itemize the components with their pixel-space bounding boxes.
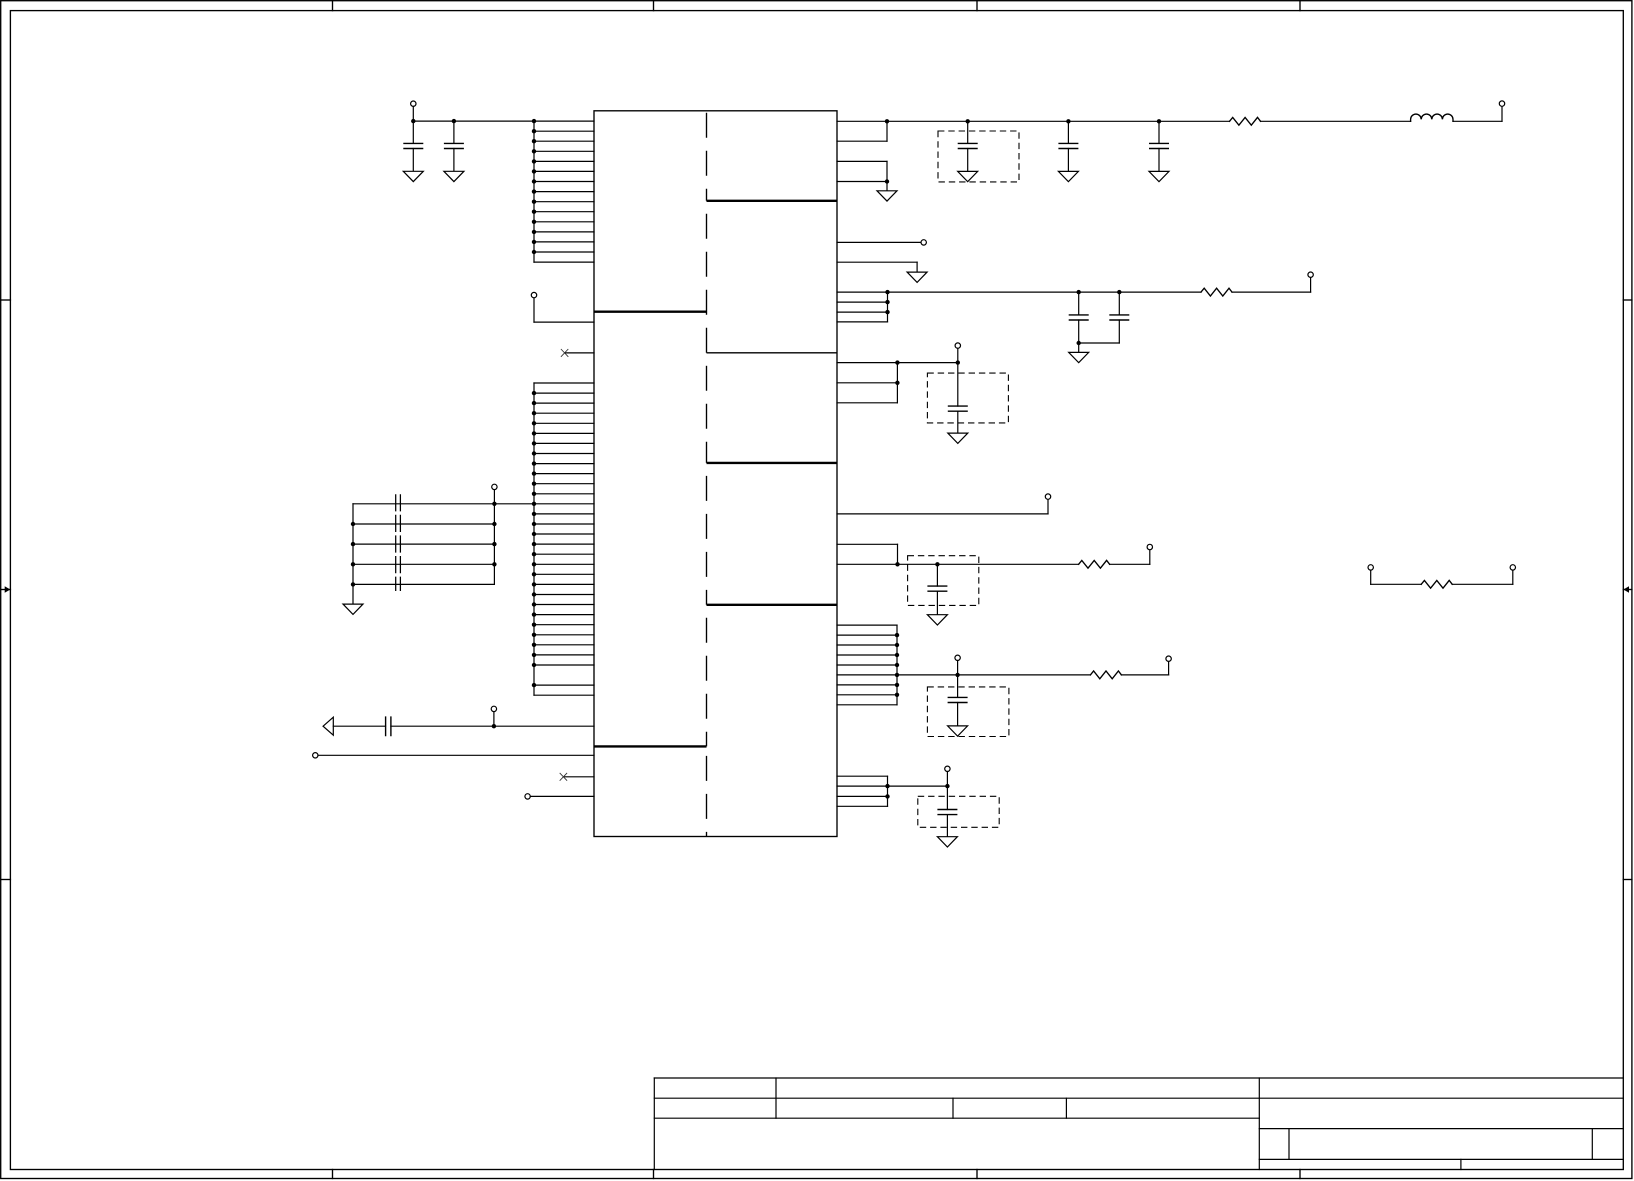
title block right row line 4 [1259, 1158, 1623, 1160]
border zone tick right [1623, 299, 1632, 301]
wire pin stub [837, 402, 897, 404]
junction [895, 562, 899, 566]
wire pin stub [534, 261, 594, 263]
wire [318, 754, 594, 756]
bus vertical [887, 776, 889, 806]
wire pin stub [837, 775, 888, 777]
wire pin stub [534, 583, 594, 585]
junction [895, 381, 899, 385]
wire pin stub [534, 624, 594, 626]
wire pin stub [534, 533, 594, 535]
junction [532, 542, 536, 546]
junction [532, 683, 536, 687]
capacitor C8 [1118, 292, 1120, 315]
wire power net 5 [837, 563, 1079, 565]
wire pin stub [837, 654, 897, 656]
wire [493, 490, 495, 504]
wire pin stub [534, 594, 594, 596]
terminal P11 [1045, 494, 1050, 499]
wire pin stub [837, 624, 897, 626]
title block divider col 2 [952, 1098, 954, 1118]
title block right row line 3 [1259, 1128, 1623, 1130]
wire pin stub [534, 231, 594, 233]
terminal P7 [1499, 101, 1504, 106]
junction [532, 139, 536, 143]
wire pin stub [534, 130, 594, 132]
junction [532, 129, 536, 133]
junction [532, 502, 536, 506]
terminal P15 [945, 766, 950, 771]
title block cell divider b [1591, 1129, 1593, 1160]
junction [895, 673, 899, 677]
capacitor C6 [1158, 121, 1160, 143]
wire pin stub [534, 392, 594, 394]
junction [532, 411, 536, 415]
IC U1 body [594, 111, 837, 837]
wire pin stub [534, 211, 594, 213]
junction [895, 693, 899, 697]
resistor R4 [1090, 671, 1121, 679]
wire pin stub [837, 634, 897, 636]
terminal P17 [1510, 565, 1515, 570]
resistor R2 [1201, 288, 1232, 296]
wire pin stub [534, 483, 594, 485]
terminal P4 [491, 706, 496, 711]
border zone tick top [653, 1, 655, 11]
wire [1232, 291, 1311, 293]
junction [532, 421, 536, 425]
wire pin stub [534, 543, 594, 545]
wire pin stub [837, 160, 887, 162]
IC U1 dashed section divider [706, 111, 708, 201]
wire power net 2 [837, 291, 1201, 293]
inductor L1 [1411, 114, 1453, 121]
junction [532, 562, 536, 566]
junction [532, 482, 536, 486]
wire [946, 772, 948, 787]
optional-part dashed box [927, 373, 1008, 423]
junction [885, 119, 889, 123]
capacitor C11 [957, 675, 959, 698]
junction [1117, 290, 1121, 294]
title block bottom cell divider [1460, 1159, 1462, 1169]
wire pin stub [837, 684, 897, 686]
junction [532, 230, 536, 234]
wire pin stub [837, 301, 888, 303]
junction [492, 542, 496, 546]
junction [351, 542, 355, 546]
title block top line [654, 1077, 1623, 1079]
wire pin stub [534, 181, 594, 183]
junction [532, 149, 536, 153]
wire [1452, 583, 1513, 585]
wire [886, 161, 888, 181]
no-connect X [561, 349, 568, 357]
junction [532, 240, 536, 244]
ground [1058, 171, 1078, 181]
terminal P14 [1166, 656, 1171, 661]
wire pin stub [534, 563, 594, 565]
resistor R3 [1079, 560, 1110, 568]
bus vertical [533, 121, 535, 262]
wire pin stub [534, 402, 594, 404]
capacitor C2 [453, 121, 455, 143]
ground [948, 433, 968, 443]
wire [533, 298, 535, 322]
wire [391, 725, 594, 727]
wire pin stub [534, 251, 594, 253]
junction [492, 522, 496, 526]
junction [532, 119, 536, 123]
terminal P1 [411, 101, 416, 106]
terminal P3 [492, 484, 497, 489]
terminal P8 [921, 240, 926, 245]
junction [532, 169, 536, 173]
junction [532, 200, 536, 204]
capacitor C5 [1067, 121, 1069, 143]
ground [948, 726, 968, 736]
wire pin stub [534, 473, 594, 475]
wire net 7 [888, 785, 948, 787]
wire power net 1 [837, 120, 1230, 122]
ground [1149, 171, 1169, 181]
IC U1 section line right 1 [707, 200, 838, 202]
border zone tick bottom [332, 1170, 334, 1179]
wire pin net 3 [837, 362, 958, 364]
wire pin stub [837, 644, 897, 646]
junction [452, 119, 456, 123]
junction [532, 643, 536, 647]
wire pin stub [837, 261, 917, 263]
wire pin stub [534, 412, 594, 414]
wire pin stub [534, 604, 594, 606]
wire pin stub [534, 513, 594, 515]
junction [895, 653, 899, 657]
junction [532, 602, 536, 606]
border zone tick right [1623, 879, 1632, 881]
ground [958, 171, 978, 181]
terminal P10 [955, 343, 960, 348]
wire [916, 262, 918, 272]
bus vertical [533, 383, 535, 695]
wire [353, 543, 494, 545]
junction [885, 794, 889, 798]
terminal P12 [1147, 544, 1152, 549]
IC U1 section line left 2 [594, 745, 707, 747]
wire pin stub [837, 382, 897, 384]
junction [885, 310, 889, 314]
wire net 6 [897, 674, 1090, 676]
wire [957, 348, 959, 362]
junction [895, 663, 899, 667]
wire pin stub [534, 191, 594, 193]
wire pin stub [534, 150, 594, 152]
bus vertical left [352, 504, 354, 585]
bus vertical [896, 625, 898, 705]
wire pin stub [837, 785, 888, 787]
wire pin stub [534, 664, 594, 666]
title block divider col 3 [1065, 1098, 1067, 1118]
border zone tick left [1, 299, 11, 301]
wire pin stub [534, 503, 594, 505]
wire pin stub [534, 201, 594, 203]
ground [444, 171, 464, 181]
resistor R5 [1421, 580, 1452, 588]
capacitor C1 [412, 121, 414, 143]
title block left edge [653, 1078, 655, 1170]
resistor R1 [1230, 117, 1261, 125]
junction [956, 360, 960, 364]
border center arrow right [1623, 589, 1632, 591]
junction [532, 179, 536, 183]
wire pin stub [837, 241, 921, 243]
bus vertical right [493, 504, 495, 585]
junction [532, 633, 536, 637]
wire pin stub [837, 795, 888, 797]
ground [1069, 352, 1089, 362]
wire [353, 563, 494, 565]
junction [411, 119, 415, 123]
wire [530, 795, 594, 797]
wire [353, 523, 494, 525]
wire [353, 583, 494, 585]
wire pin stub [534, 160, 594, 162]
ground [877, 191, 897, 201]
wire [886, 121, 888, 141]
terminal P13 [955, 655, 960, 660]
junction [532, 592, 536, 596]
junction [532, 512, 536, 516]
wire pin stub [534, 493, 594, 495]
wire pin stub [534, 553, 594, 555]
wire pin stub [534, 140, 594, 142]
wire pin net 4 [837, 513, 1048, 515]
capacitor C3 [386, 716, 391, 736]
wire [896, 363, 898, 403]
ground [343, 604, 363, 614]
junction [885, 290, 889, 294]
wire pin stub [534, 453, 594, 455]
wire pin stub [534, 221, 594, 223]
wire pin stub [534, 382, 594, 384]
IC U1 section line right 3 [707, 462, 838, 464]
optional-part dashed box [908, 556, 979, 606]
wire [353, 503, 534, 505]
junction [492, 502, 496, 506]
junction [532, 391, 536, 395]
junction [532, 532, 536, 536]
title block row line 2 [654, 1097, 1623, 1099]
wire pin stub [837, 674, 897, 676]
junction [532, 401, 536, 405]
junction [895, 633, 899, 637]
wire no-connect stub [564, 776, 594, 778]
junction [532, 189, 536, 193]
junction [532, 572, 536, 576]
wire pin stub [534, 241, 594, 243]
junction [532, 653, 536, 657]
no-connect X [560, 773, 567, 781]
wire pin stub [534, 694, 594, 696]
terminal P2 [531, 292, 536, 297]
wire pin stub [837, 311, 888, 313]
title block middle divider [1258, 1078, 1260, 1170]
terminal P16 [1368, 565, 1373, 570]
junction [532, 159, 536, 163]
junction [532, 522, 536, 526]
border zone tick bottom [976, 1170, 978, 1179]
junction [532, 250, 536, 254]
terminal P6 [525, 794, 530, 799]
junction [532, 431, 536, 435]
wire pin stub [534, 120, 594, 122]
junction [1066, 119, 1070, 123]
junction [1077, 290, 1081, 294]
wire [1370, 570, 1372, 584]
terminal P9 [1308, 272, 1313, 277]
connector body line 2 [399, 494, 401, 591]
junction [1077, 341, 1081, 345]
wire [1110, 563, 1150, 565]
wire pin stub [534, 463, 594, 465]
junction [532, 451, 536, 455]
junction [351, 562, 355, 566]
wire pin stub [534, 422, 594, 424]
junction [532, 552, 536, 556]
junction [532, 471, 536, 475]
junction [885, 179, 889, 183]
wire pin stub [534, 170, 594, 172]
junction [532, 492, 536, 496]
border zone tick top [1299, 1, 1301, 11]
wire [352, 584, 354, 604]
wire pin stub [534, 684, 594, 686]
junction [492, 724, 496, 728]
ground [927, 615, 947, 625]
junction [955, 673, 959, 677]
junction [945, 784, 949, 788]
IC U1 section line right 4 [707, 604, 838, 606]
junction [351, 522, 355, 526]
wire [1261, 120, 1411, 122]
wire pin stub [534, 523, 594, 525]
junction [532, 461, 536, 465]
junction [532, 582, 536, 586]
ground [937, 837, 957, 847]
wire pin stub [837, 805, 888, 807]
IC U1 section line right 2 [707, 352, 838, 354]
border zone tick left [1, 879, 11, 881]
wire pin stub [837, 543, 898, 545]
IC U1 section line left 1 [594, 311, 707, 313]
title block left row line 3 [654, 1117, 1259, 1119]
ground [403, 171, 423, 181]
junction [532, 623, 536, 627]
optional-part dashed box [938, 131, 1019, 182]
border zone tick top [332, 1, 334, 11]
wire [897, 544, 899, 564]
wire [333, 725, 385, 727]
wire pin stub [534, 432, 594, 434]
wire pin stub [534, 573, 594, 575]
optional-part dashed box [918, 796, 999, 827]
wire pin stub [837, 181, 887, 183]
junction [492, 562, 496, 566]
wire [1121, 674, 1168, 676]
capacitor C9 [957, 363, 959, 407]
wire pin stub [534, 634, 594, 636]
wire [957, 661, 959, 675]
wire [1453, 120, 1502, 122]
wire power rail [413, 120, 534, 122]
junction [532, 220, 536, 224]
junction [895, 643, 899, 647]
border zone tick bottom [1299, 1170, 1301, 1179]
border zone tick top [976, 1, 978, 11]
junction [885, 784, 889, 788]
junction [1157, 119, 1161, 123]
junction [532, 441, 536, 445]
capacitor C7 [1078, 292, 1080, 315]
wire no-connect stub [565, 352, 594, 354]
junction [532, 210, 536, 214]
border center arrow left [1, 589, 11, 591]
junction [935, 562, 939, 566]
wire pin stub [534, 654, 594, 656]
junction [895, 360, 899, 364]
junction [885, 300, 889, 304]
wire pin stub [534, 644, 594, 646]
capacitor C12 [946, 786, 948, 809]
wire pin stub [837, 664, 897, 666]
wire [886, 182, 888, 191]
wire [1079, 342, 1120, 344]
border zone tick bottom [653, 1170, 655, 1179]
junction [532, 612, 536, 616]
wire pin stub [837, 694, 897, 696]
ground [907, 272, 927, 282]
junction [895, 683, 899, 687]
capacitor C4 [967, 121, 969, 143]
wire [412, 106, 414, 121]
connector body line 1 [395, 494, 397, 591]
optional-part dashed box [927, 687, 1009, 737]
title block divider col 1 [775, 1078, 777, 1118]
wire pin stub [534, 614, 594, 616]
junction [351, 582, 355, 586]
wire pin stub [837, 704, 897, 706]
wire pin stub [534, 442, 594, 444]
terminal P5 [313, 753, 318, 758]
capacitor C10 [936, 564, 938, 586]
wire pin stub [837, 140, 887, 142]
wire [887, 292, 889, 322]
wire pin stub [837, 321, 888, 323]
junction [966, 119, 970, 123]
off-page arrow [323, 717, 333, 735]
junction [532, 663, 536, 667]
wire [493, 712, 495, 727]
title block cell divider a [1288, 1129, 1290, 1160]
